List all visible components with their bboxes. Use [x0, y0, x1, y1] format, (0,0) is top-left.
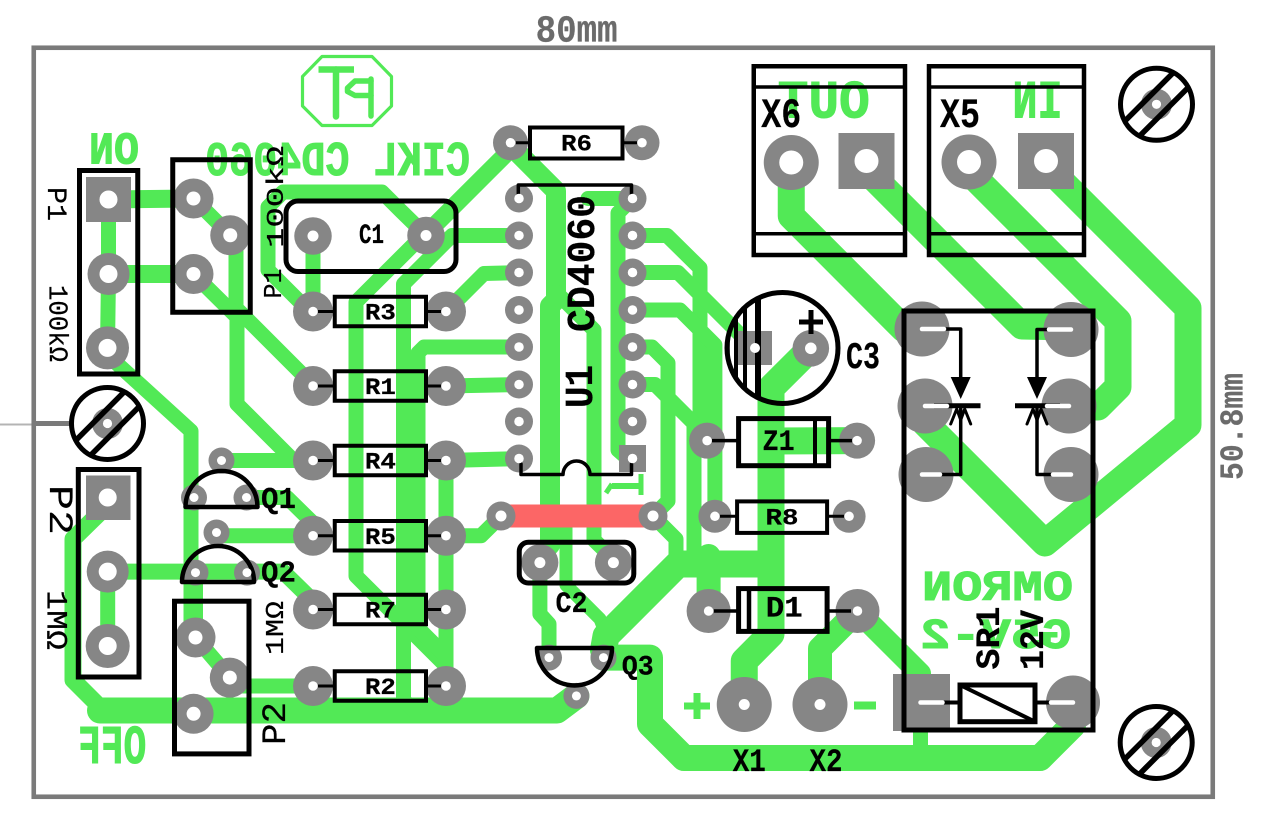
svg-text:R3: R3	[365, 301, 396, 327]
svg-text:CD4060: CD4060	[562, 195, 607, 332]
svg-text:100kΩ: 100kΩ	[264, 146, 291, 248]
svg-text:P2: P2	[39, 485, 77, 535]
svg-text:IN: IN	[1013, 74, 1063, 135]
svg-text:100kΩ: 100kΩ	[41, 285, 71, 362]
svg-text:Q1: Q1	[261, 483, 296, 518]
svg-text:Q2: Q2	[261, 557, 296, 592]
svg-text:X2: X2	[810, 744, 843, 781]
svg-text:R1: R1	[365, 375, 396, 401]
svg-text:50.8mm: 50.8mm	[1215, 373, 1252, 480]
svg-text:C2: C2	[556, 588, 588, 622]
svg-text:P2: P2	[258, 702, 296, 745]
svg-text:R4: R4	[365, 450, 396, 476]
svg-text:C1: C1	[359, 221, 384, 252]
svg-text:1MΩ: 1MΩ	[38, 590, 72, 650]
svg-text:R8: R8	[766, 505, 799, 531]
svg-text:P1: P1	[259, 269, 289, 299]
svg-text:12V: 12V	[1016, 609, 1054, 670]
svg-text:R7: R7	[365, 599, 396, 625]
svg-text:D1: D1	[766, 593, 803, 627]
svg-text:X5: X5	[940, 92, 980, 140]
svg-text:CIKL CD4060: CIKL CD4060	[205, 136, 470, 190]
svg-text:C3: C3	[846, 337, 880, 380]
svg-text:X1: X1	[733, 744, 766, 781]
svg-text:OMRON: OMRON	[922, 564, 1073, 613]
svg-text:SR1: SR1	[972, 607, 1010, 670]
svg-text:Z1: Z1	[763, 426, 795, 460]
svg-text:1MΩ: 1MΩ	[261, 601, 291, 655]
svg-text:R6: R6	[561, 132, 592, 158]
svg-text:OFF: OFF	[78, 717, 146, 780]
svg-text:Q3: Q3	[622, 653, 654, 684]
svg-text:R2: R2	[365, 675, 396, 701]
svg-text:X6: X6	[761, 92, 801, 140]
svg-text:R5: R5	[365, 525, 396, 551]
svg-text:P1: P1	[39, 187, 70, 221]
svg-text:U1: U1	[560, 365, 605, 408]
